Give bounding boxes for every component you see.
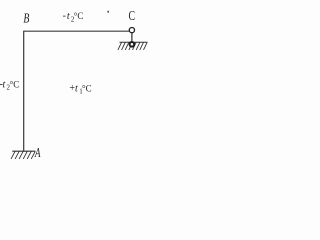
svg-text:A: A xyxy=(34,145,41,160)
svg-text:t: t xyxy=(67,11,70,22)
svg-text:t: t xyxy=(3,79,6,90)
svg-text:B: B xyxy=(23,10,29,25)
svg-text:°C: °C xyxy=(10,79,20,89)
svg-text:C: C xyxy=(129,9,136,24)
svg-text:°C: °C xyxy=(82,83,92,93)
svg-text:-: - xyxy=(63,11,66,22)
svg-text:t: t xyxy=(75,83,78,94)
svg-text:°C: °C xyxy=(74,11,84,21)
